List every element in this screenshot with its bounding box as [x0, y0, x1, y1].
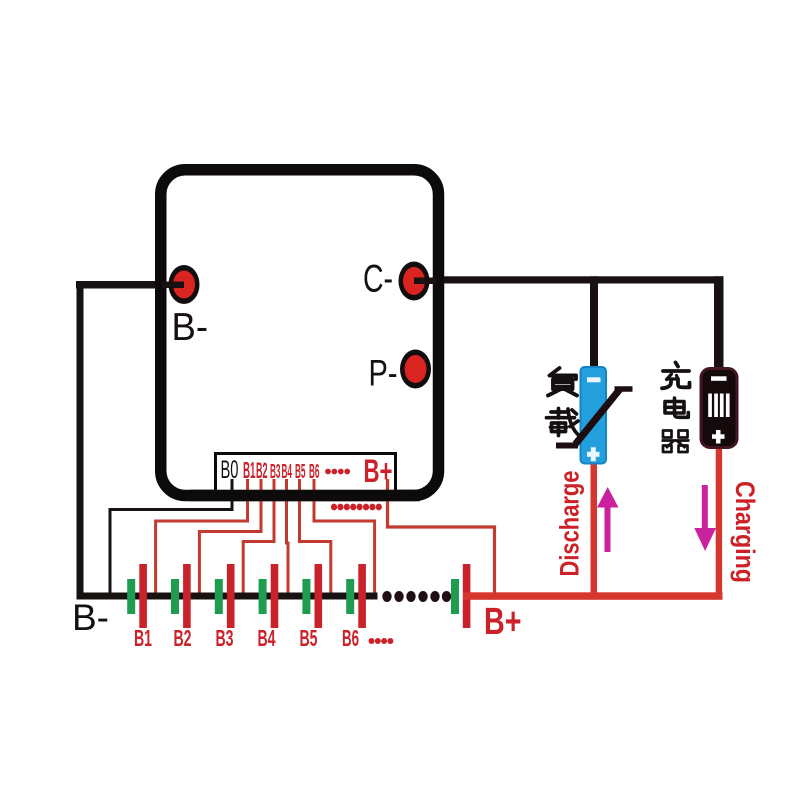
wire: pin B6 sense [314, 479, 375, 596]
load (blue body) [581, 367, 607, 464]
svg-text:C-: C- [363, 258, 393, 301]
charger plus mark [712, 430, 725, 444]
label 充 (charger char 1) [662, 363, 690, 389]
label 负 (load char 1) [548, 368, 577, 396]
terminal B- (red eyelet) [162, 265, 200, 304]
BMS board U1 [161, 170, 439, 496]
wire: pin B2 sense [199, 479, 261, 596]
battery cell B2 [171, 564, 191, 628]
wire: pin B+ sense [388, 479, 495, 594]
svg-text:B0: B0 [221, 456, 239, 484]
wire: load return (red) [591, 464, 598, 596]
wire: black branch down to charger [714, 276, 724, 371]
wire: black branch down to load [590, 276, 598, 368]
svg-text:B6: B6 [342, 625, 359, 651]
red positive bus B+ [463, 592, 723, 600]
svg-text:B3: B3 [216, 625, 234, 651]
battery cell B3 [215, 564, 235, 628]
load minus mark [587, 377, 601, 382]
charger minus mark [711, 376, 727, 381]
charger (black body) [701, 369, 737, 448]
svg-text:B5: B5 [300, 625, 318, 651]
balance connector J1 [216, 454, 396, 498]
svg-text:B2: B2 [174, 625, 192, 651]
wire: pin B3 sense [243, 479, 274, 596]
wire: C- terminal to top-right rail [414, 276, 723, 283]
load plus mark [587, 447, 600, 461]
svg-text:B-: B- [72, 597, 109, 638]
battery cell B6 [346, 564, 366, 628]
svg-text:B1: B1 [243, 457, 256, 483]
wire: pin B4 sense [287, 479, 289, 596]
svg-text:B1: B1 [134, 625, 152, 651]
discharge arrow (up) [597, 487, 619, 552]
wire: B- terminal to left rail [76, 281, 186, 289]
wire: pin B1 sense [156, 479, 248, 596]
BMS board bottom border (overlay over pin wires) [190, 490, 420, 502]
svg-text:Discharge: Discharge [555, 471, 585, 577]
terminal P- (red eyelet) [400, 350, 431, 389]
dots after B6 label [369, 638, 394, 644]
svg-text:B+: B+ [484, 601, 522, 643]
ellipsis dots on bus [382, 591, 451, 602]
terminal C- (red eyelet) [399, 262, 437, 301]
battery cell B5 [302, 564, 322, 628]
svg-text:P-: P- [369, 353, 398, 394]
svg-text:B-: B- [172, 306, 209, 349]
svg-text:B4: B4 [258, 625, 276, 651]
wire: charger return (red) [716, 446, 722, 596]
wire: pin B5 sense [300, 479, 331, 596]
connector dots [325, 469, 350, 475]
dots below connector [331, 504, 382, 511]
battery cell B4 [259, 564, 279, 628]
charging arrow (down) [694, 485, 716, 551]
label 载 (load char 2) [547, 409, 580, 436]
svg-text:Charging: Charging [730, 481, 760, 583]
switch across load [556, 389, 633, 446]
wire: left rail vertical (B- down to battery bus) [77, 281, 84, 599]
wire: pin B0 sense (black) [110, 479, 232, 596]
label 器 (charger char 3) [662, 431, 690, 453]
battery bus (black) [77, 593, 378, 600]
battery cell B1 [127, 564, 147, 628]
battery cell Bn (last) [451, 564, 470, 628]
label 电 (charger char 2) [665, 398, 688, 417]
charger grille bars [708, 394, 729, 418]
